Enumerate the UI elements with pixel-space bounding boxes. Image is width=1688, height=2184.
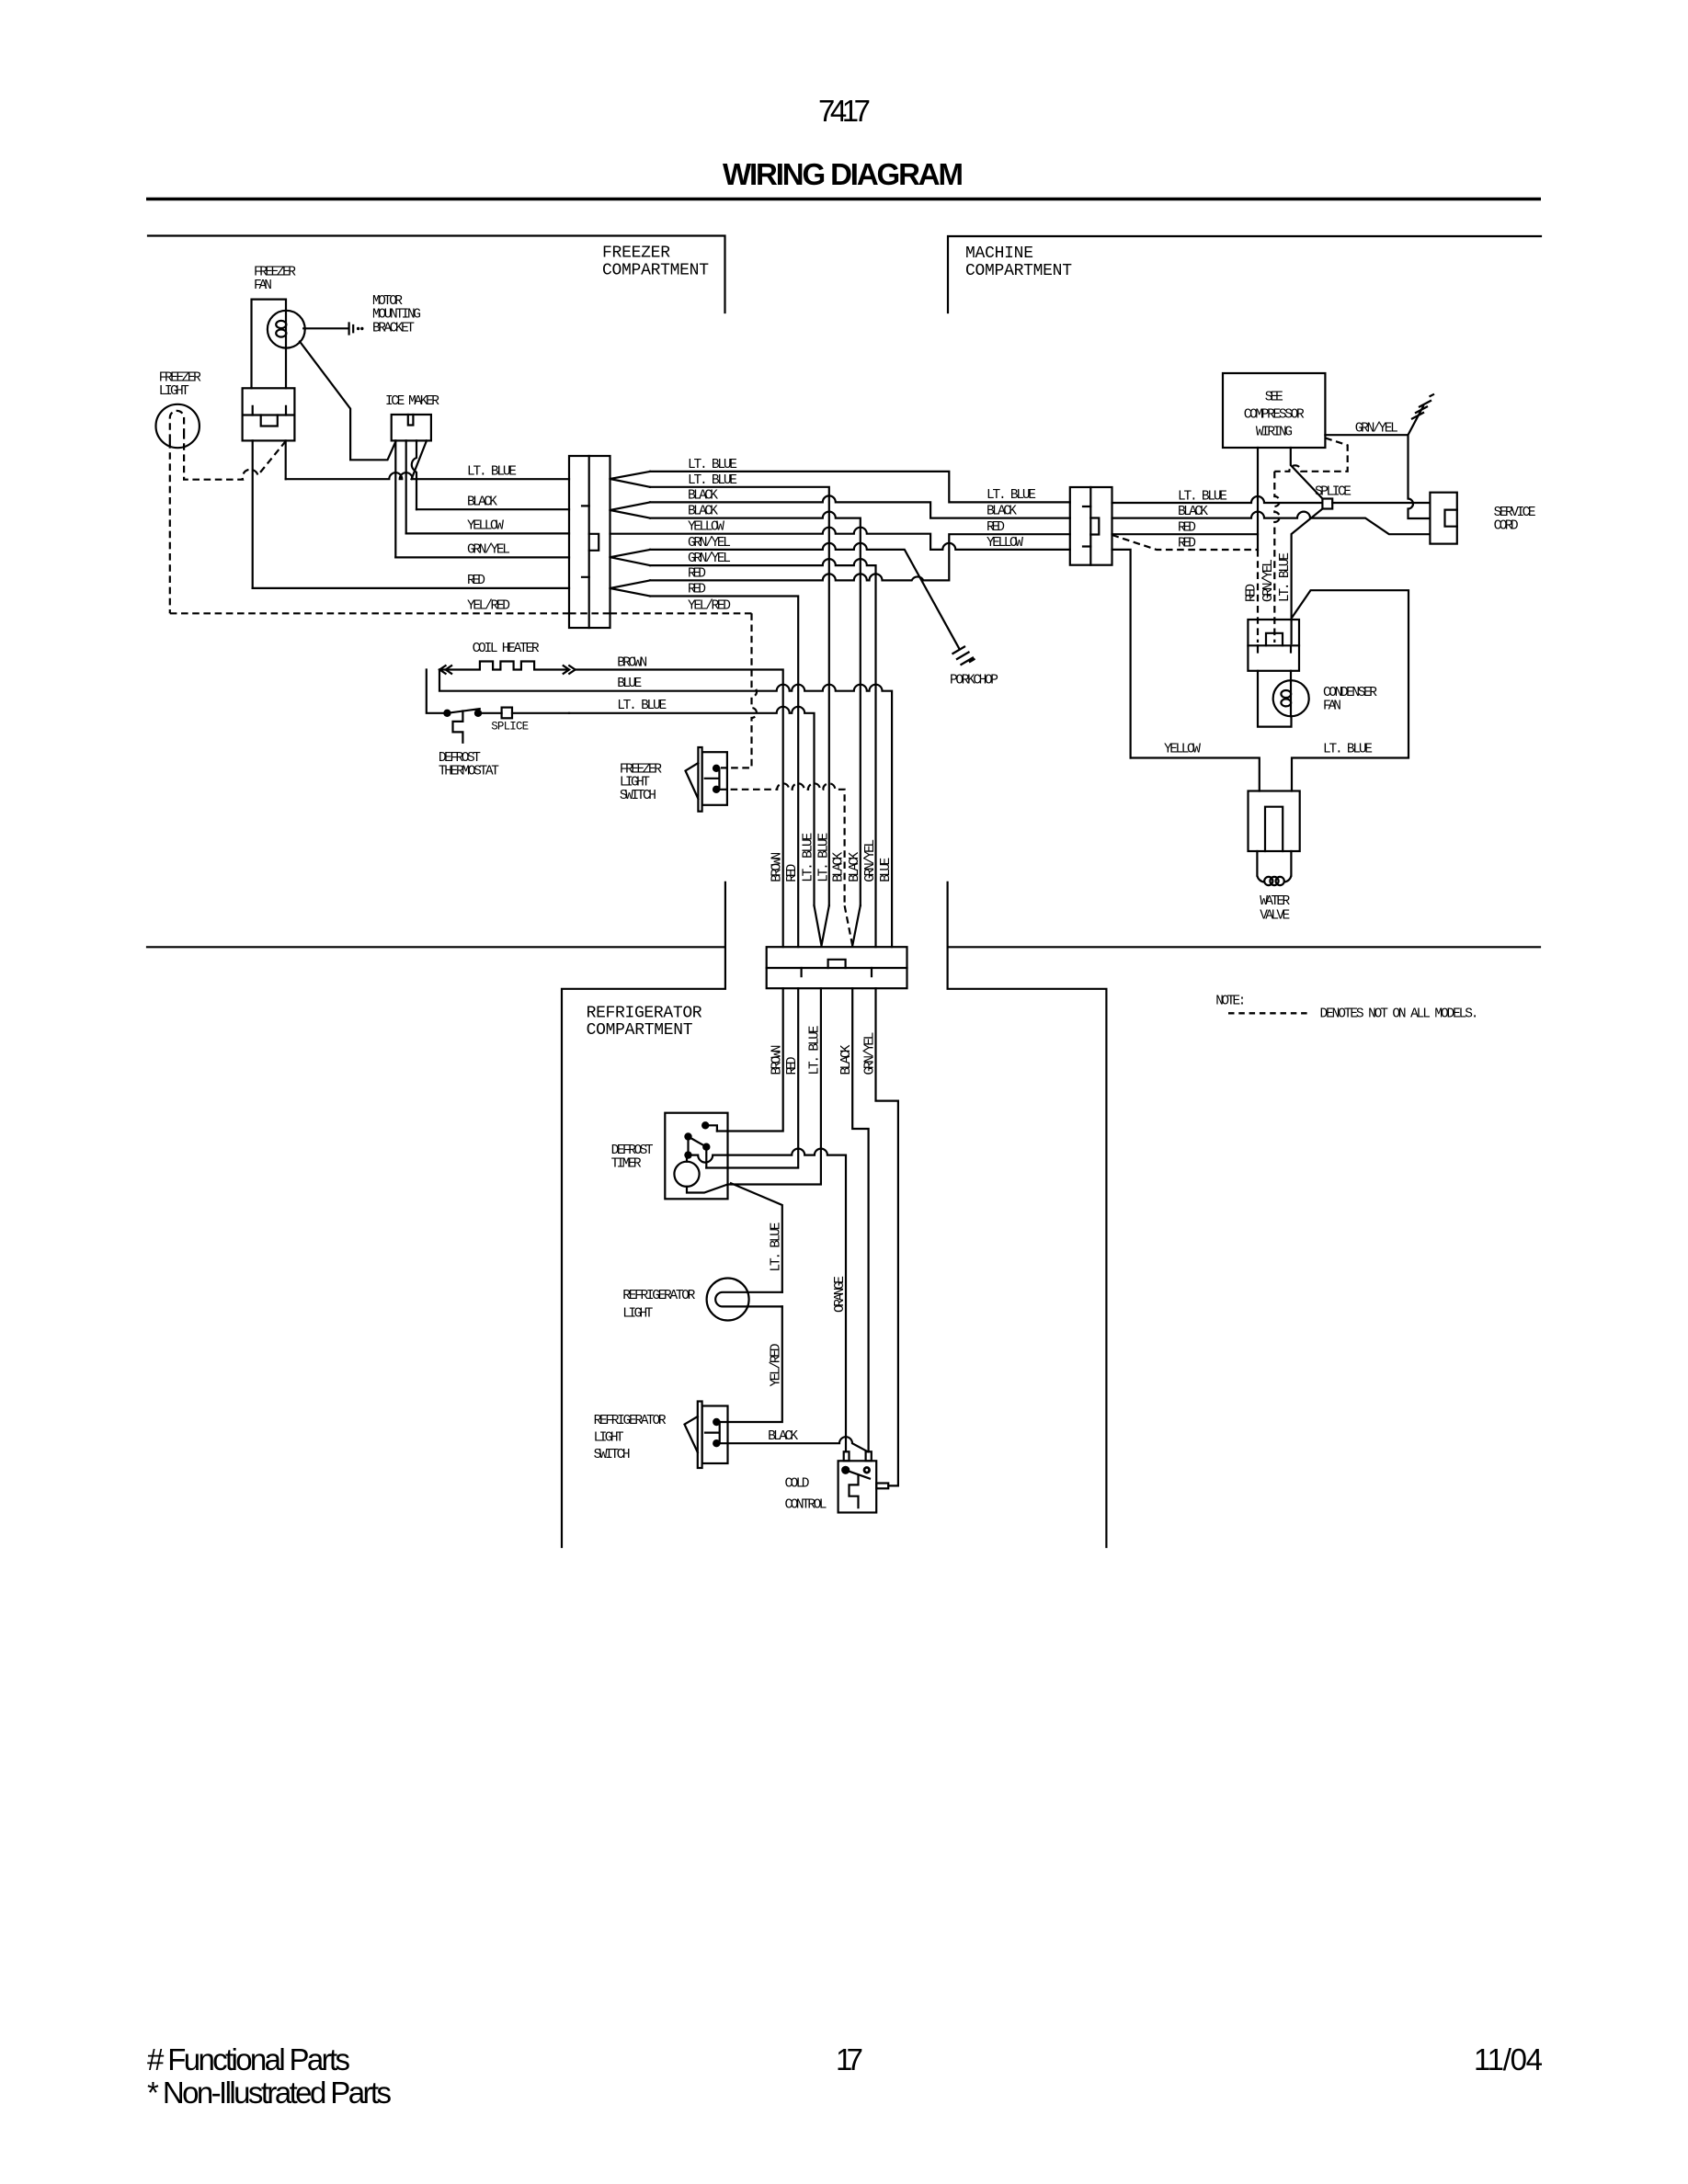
svg-text:CORD: CORD — [1494, 519, 1519, 534]
svg-text:RED: RED — [1245, 584, 1260, 602]
svg-text:SEE: SEE — [1265, 391, 1283, 405]
svg-text:GRN/YEL: GRN/YEL — [1355, 422, 1398, 437]
wire YELLOW to connector — [406, 532, 569, 534]
porkchop ground hatching — [952, 646, 975, 665]
svg-text:RED: RED — [987, 520, 1005, 535]
svg-text:SWITCH: SWITCH — [620, 789, 656, 803]
interconnect junction block J1 — [767, 947, 907, 988]
svg-text:BLUE: BLUE — [879, 858, 894, 882]
svg-text:YELLOW: YELLOW — [987, 536, 1023, 551]
wire YELLOW — [610, 528, 1070, 550]
freezer light switch terminals — [713, 765, 720, 772]
defrost timer terminal 3 — [702, 1143, 710, 1151]
svg-text:CONTROL: CONTROL — [785, 1498, 827, 1513]
svg-text:11/04: 11/04 — [1474, 2042, 1543, 2076]
svg-text:LT. BLUE: LT. BLUE — [467, 465, 517, 480]
svg-text:LT. BLUE: LT. BLUE — [987, 488, 1036, 503]
chassis ground hatching — [1411, 394, 1434, 419]
wire BLACK to connector — [416, 508, 569, 510]
svg-text:SWITCH: SWITCH — [594, 1448, 631, 1462]
svg-text:LIGHT: LIGHT — [594, 1431, 624, 1446]
junction taper BLACK pair — [845, 905, 853, 946]
wire LT. BLUE (heater circuit) — [569, 707, 815, 905]
svg-text:WIRING: WIRING — [1256, 426, 1293, 440]
svg-text:BROWN: BROWN — [617, 655, 647, 670]
defrost timer motor wire to light circuit — [687, 1185, 728, 1193]
svg-text:RED: RED — [1178, 537, 1196, 552]
svg-text:LT. BLUE: LT. BLUE — [1323, 743, 1373, 757]
svg-text:# Functional Parts: # Functional Parts — [147, 2042, 350, 2076]
svg-text:YELLOW: YELLOW — [1164, 743, 1201, 757]
svg-text:BLUE: BLUE — [617, 677, 642, 691]
svg-text:LT. BLUE: LT. BLUE — [1278, 552, 1293, 602]
cold control right terminal — [876, 1484, 888, 1489]
svg-text:NOTE:: NOTE: — [1215, 994, 1246, 1008]
splitter LT. BLUE pair — [610, 472, 651, 487]
defrost timer contact wire to ORANGE — [689, 1149, 847, 1452]
svg-text:LT. BLUE: LT. BLUE — [801, 833, 815, 882]
wire heater left leg down to thermostat — [427, 670, 444, 713]
svg-text:YEL/RED: YEL/RED — [770, 1344, 784, 1387]
condenser loop box — [1292, 590, 1409, 791]
refrigerator light filament — [715, 1292, 782, 1307]
motor mounting bracket symbol — [349, 324, 354, 335]
defrost timer terminal 1 — [701, 1121, 709, 1129]
svg-text:MOUNTING: MOUNTING — [372, 308, 421, 323]
svg-text:GRN/YEL: GRN/YEL — [467, 543, 510, 558]
svg-text:LT. BLUE: LT. BLUE — [617, 699, 667, 713]
wire motor diagonal to ice maker circuit — [300, 342, 395, 461]
freezer light switch actuator wedge — [686, 763, 699, 799]
freezer fan motor housing — [252, 300, 287, 389]
splice square S2 — [1322, 499, 1332, 509]
wire RED to defrost timer — [706, 988, 798, 1167]
wire BLACK machine connector to service cord — [1112, 512, 1431, 535]
svg-text:LIGHT: LIGHT — [159, 384, 189, 399]
wire motor to mounting bracket — [303, 327, 348, 329]
defrost timer motor — [674, 1162, 699, 1187]
splice square (coil heater) — [478, 712, 569, 714]
svg-text:COMPRESSOR: COMPRESSOR — [1244, 408, 1305, 423]
defrost timer switch arm — [689, 1137, 707, 1147]
refrigerator border top right — [948, 947, 1107, 1547]
wire LT. BLUE splice to service cord — [1332, 502, 1430, 504]
svg-text:YELLOW: YELLOW — [688, 520, 724, 535]
wire RED machine connector down — [1112, 533, 1259, 535]
refrigerator light switch body — [702, 1406, 728, 1464]
svg-text:LT. BLUE: LT. BLUE — [1178, 490, 1227, 505]
coil heater element — [439, 662, 566, 670]
wire BLACK switch to cold control — [720, 1437, 868, 1451]
cold control contacts — [841, 1466, 850, 1474]
svg-text:FAN: FAN — [1323, 700, 1341, 714]
machine harness connector P2 — [1070, 487, 1112, 565]
dashed wire freezer light right to fan plug — [184, 432, 286, 480]
svg-text:TIMER: TIMER — [611, 1156, 642, 1171]
wire GRN/YEL to connector — [395, 556, 569, 558]
refrigerator border top left — [562, 947, 725, 1547]
svg-text:BROWN: BROWN — [770, 852, 785, 882]
wire LT. BLUE 2 (drops to junction) — [650, 487, 829, 905]
heater continuation chevrons right — [563, 665, 576, 675]
YEL/RED dashed through connector — [569, 612, 610, 614]
wire BROWN to defrost timer — [717, 988, 783, 1131]
svg-text:BLACK: BLACK — [688, 488, 718, 503]
svg-text:GRN/YEL: GRN/YEL — [688, 552, 731, 566]
ice maker pin 3 wire to BLACK — [412, 440, 416, 509]
svg-text:BLACK: BLACK — [467, 495, 497, 510]
wire RED 2 (drops to junction) — [650, 597, 798, 948]
splitter BLACK pair — [610, 502, 651, 518]
svg-text:COIL HEATER: COIL HEATER — [473, 642, 540, 656]
wire GRN/YEL drop to cold control — [876, 988, 898, 1485]
wire LT. BLUE machine connector to splice — [1112, 496, 1323, 503]
svg-text:LT. BLUE: LT. BLUE — [808, 1026, 823, 1075]
wire fan plug pin to LT. BLUE — [285, 440, 287, 479]
wire GRN/YEL 2 (drops to junction) — [650, 559, 876, 947]
svg-text:LIGHT: LIGHT — [622, 1307, 653, 1322]
wire BLACK drop to cold control — [852, 988, 868, 1451]
svg-text:17: 17 — [836, 2042, 863, 2076]
wire LT. BLUE from compressor box to splice — [1291, 448, 1323, 499]
wire GRN/YEL to chassis ground — [1325, 406, 1423, 435]
svg-text:GRN/YEL: GRN/YEL — [688, 536, 731, 551]
wire YEL/RED dashed to connector — [170, 612, 569, 614]
svg-text:BLACK: BLACK — [987, 505, 1017, 519]
defrost timer box — [665, 1113, 727, 1200]
condenser fan wiring loop — [1258, 671, 1292, 727]
svg-text:BLACK: BLACK — [848, 852, 862, 882]
svg-text:BRACKET: BRACKET — [372, 321, 415, 336]
wire GRN/YEL ground drop to service cord — [1409, 435, 1431, 518]
wire RED to connector — [253, 587, 569, 589]
wire fan plug pin to RED — [252, 440, 254, 588]
svg-text:DENOTES NOT ON ALL MODELS.: DENOTES NOT ON ALL MODELS. — [1320, 1007, 1479, 1021]
section border bottom left — [147, 882, 725, 948]
condenser fan motor — [1273, 680, 1309, 716]
freezer light switch plate — [698, 747, 701, 812]
cold control bellows zigzag — [850, 1475, 859, 1507]
svg-text:BLACK: BLACK — [839, 1044, 854, 1075]
svg-text:FREEZER: FREEZER — [602, 245, 670, 263]
freezer harness connector P1 — [569, 456, 610, 628]
svg-text:YEL/RED: YEL/RED — [688, 598, 731, 613]
svg-text:REFRIGERATOR: REFRIGERATOR — [622, 1289, 695, 1303]
svg-text:ICE MAKER: ICE MAKER — [385, 394, 439, 409]
wire RED 1 (rises to machine connector) — [650, 534, 1070, 580]
wire BLUE — [439, 670, 892, 948]
svg-text:COMPARTMENT: COMPARTMENT — [587, 1021, 693, 1040]
ice maker pin 4 wire to LT. BLUE — [412, 440, 428, 479]
svg-text:WATER: WATER — [1260, 894, 1290, 909]
ice maker pin 2 wire to YELLOW — [405, 440, 407, 533]
wire GRN/YEL 1 (to porkchop ground) — [650, 543, 960, 649]
svg-text:COMPARTMENT: COMPARTMENT — [602, 262, 709, 280]
splitter RED pair — [610, 580, 651, 596]
svg-text:LT. BLUE: LT. BLUE — [688, 458, 737, 472]
splitter GRN/YEL pair — [610, 550, 651, 565]
wire RED vertical from compressor box — [1257, 448, 1259, 550]
cold control spade terminals — [844, 1451, 850, 1461]
cold control switch arm — [846, 1470, 871, 1479]
svg-text:COLD: COLD — [785, 1477, 810, 1492]
svg-text:REFRIGERATOR: REFRIGERATOR — [594, 1414, 667, 1428]
refrigerator light switch actuator wedge — [685, 1416, 698, 1452]
svg-text:RED: RED — [785, 1057, 800, 1075]
wire BLACK 1 — [650, 495, 1070, 518]
svg-text:GRN/YEL: GRN/YEL — [862, 1032, 877, 1075]
cold control box — [838, 1461, 877, 1512]
freezer light filament (dashed) — [170, 411, 184, 441]
svg-text:ORANGE: ORANGE — [833, 1276, 848, 1313]
svg-text:BLACK: BLACK — [688, 505, 718, 519]
dashed wire switch to BLACK drop — [719, 783, 844, 905]
dashed wire freezer light left to YEL/RED — [169, 441, 171, 613]
wire YEL/RED light to switch — [720, 1306, 782, 1422]
svg-text:GRN/YEL: GRN/YEL — [863, 839, 878, 882]
svg-text:RED: RED — [1178, 521, 1196, 536]
svg-text:SPLICE: SPLICE — [491, 721, 529, 734]
ice maker pin 1 wire to GRN/YEL — [394, 440, 396, 557]
svg-text:GRN/YEL: GRN/YEL — [1261, 559, 1276, 602]
svg-text:BROWN: BROWN — [770, 1045, 785, 1075]
svg-text:LT. BLUE: LT. BLUE — [770, 1223, 784, 1272]
svg-text:REFRIGERATOR: REFRIGERATOR — [587, 1005, 702, 1023]
wire RED dashed into terminal block — [1257, 550, 1259, 643]
svg-text:VALVE: VALVE — [1260, 909, 1290, 924]
wire BLACK 2 (drops to junction) — [650, 512, 861, 906]
svg-text:MACHINE: MACHINE — [965, 245, 1033, 263]
svg-text:THERMOSTAT: THERMOSTAT — [439, 764, 499, 779]
svg-text:PORKCHOP: PORKCHOP — [950, 674, 998, 688]
svg-text:RED: RED — [688, 583, 706, 597]
freezer light switch body — [702, 752, 727, 805]
svg-text:YELLOW: YELLOW — [467, 519, 504, 534]
refrigerator light switch terminals — [713, 1418, 720, 1426]
water valve coil — [1257, 876, 1264, 882]
section border bottom right — [948, 882, 1540, 948]
svg-text:COMPARTMENT: COMPARTMENT — [965, 262, 1072, 280]
title rule — [146, 198, 1541, 200]
wire LT. BLUE to refrigerator light — [731, 1183, 782, 1292]
svg-text:FAN: FAN — [254, 279, 272, 293]
wire RED dashed alternate — [1112, 535, 1259, 550]
refrigerator light switch plate — [698, 1402, 702, 1469]
wire GRN/YEL dashed from compressor box — [1274, 438, 1347, 471]
wire fan motor to plug — [285, 311, 287, 388]
wire GRN/YEL dashed vertical to terminal block — [1274, 472, 1280, 643]
wire YELLOW machine connector down — [1112, 550, 1131, 758]
wire LT. BLUE to defrost timer — [728, 988, 821, 1184]
water valve — [1249, 791, 1300, 852]
wire LT. BLUE splice to terminal block — [1292, 509, 1323, 644]
freezer light bulb — [156, 404, 200, 448]
svg-text:LT. BLUE: LT. BLUE — [688, 473, 737, 488]
svg-text:7417: 7417 — [818, 94, 871, 128]
see compressor wiring box — [1223, 373, 1325, 448]
ice maker connector — [392, 415, 431, 440]
wire LT. BLUE to connector — [286, 472, 569, 479]
svg-text:YEL/RED: YEL/RED — [467, 599, 510, 614]
svg-text:SPLICE: SPLICE — [1315, 485, 1352, 500]
svg-text:BLACK: BLACK — [768, 1429, 798, 1444]
svg-text:BLACK: BLACK — [1178, 505, 1208, 519]
svg-text:RED: RED — [785, 864, 800, 882]
freezer fan motor FM1 — [268, 311, 305, 348]
wire YELLOW bottom — [1131, 758, 1260, 791]
heater continuation chevrons left — [439, 665, 452, 675]
svg-text:BLACK: BLACK — [832, 852, 847, 882]
junction taper LT. BLUE pair — [815, 905, 829, 946]
compressor terminal block TB1 — [1248, 620, 1299, 671]
defrost timer terminal 2 — [684, 1132, 691, 1140]
dashed drop from YEL/RED to switch — [721, 613, 757, 768]
freezer compartment bracket — [148, 236, 725, 313]
service cord plug — [1430, 493, 1456, 544]
defrost timer terminal 4 — [684, 1151, 691, 1158]
wire BROWN from heater — [576, 670, 783, 948]
svg-text:WIRING DIAGRAM: WIRING DIAGRAM — [723, 157, 964, 191]
wire YEL/RED dashed right — [610, 612, 752, 614]
svg-text:RED: RED — [688, 566, 706, 581]
wire LT. BLUE 1 (to machine connector) — [650, 472, 1070, 503]
svg-text:MOTOR: MOTOR — [372, 294, 403, 309]
svg-text:RED: RED — [467, 574, 485, 588]
svg-text:* Non-Illustrated Parts: * Non-Illustrated Parts — [147, 2076, 392, 2110]
machine compartment bracket — [948, 236, 1541, 313]
refrigerator light bulb — [707, 1279, 749, 1321]
defrost thermostat — [443, 710, 451, 717]
freezer fan plug connector — [243, 388, 295, 440]
svg-text:LT. BLUE: LT. BLUE — [817, 833, 832, 882]
